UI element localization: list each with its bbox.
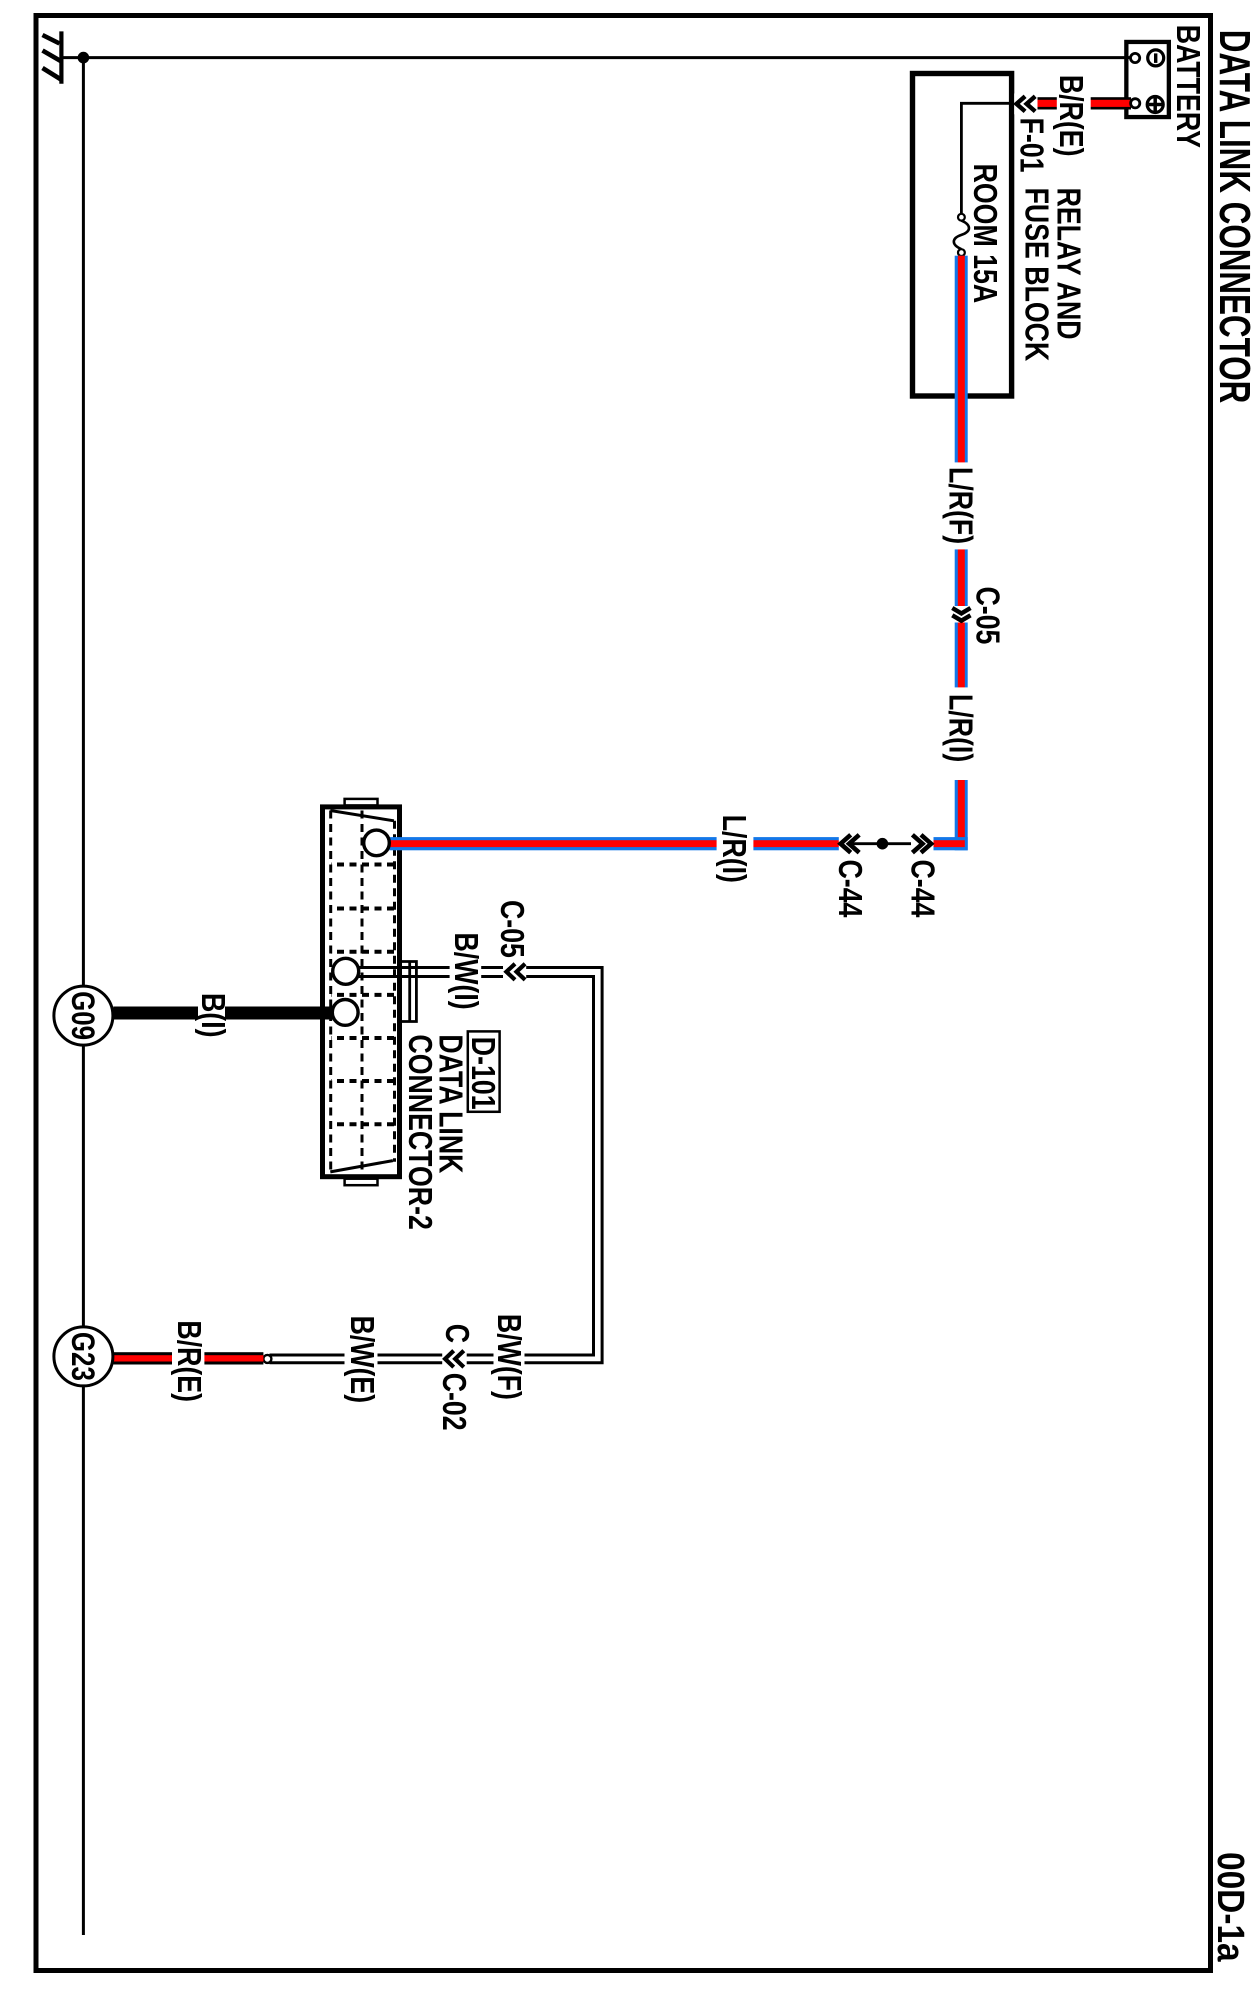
connector dashed cell dividers <box>331 865 394 1125</box>
connector right tab <box>345 1179 378 1186</box>
connector D-101 outer box <box>323 807 400 1177</box>
svg-text:F-01: F-01 <box>1013 118 1049 173</box>
connector chevron C-02 <box>442 1348 467 1369</box>
battery post small circles <box>1131 53 1140 62</box>
connector chevron into fuse block <box>1014 94 1037 115</box>
wire B/R(E) to G23 <box>113 1352 263 1364</box>
connector slanted end right <box>330 1161 393 1172</box>
svg-text:B/W(E): B/W(E) <box>343 1316 379 1404</box>
svg-text:C-02: C-02 <box>435 1373 471 1431</box>
battery terminal minus <box>1148 50 1164 66</box>
wire L/R vertical to connector <box>389 837 967 850</box>
fuse element ROOM 15A <box>954 221 969 250</box>
svg-text:C: C <box>438 1324 474 1343</box>
svg-text:CONNECTOR-2: CONNECTOR-2 <box>401 1034 437 1229</box>
mounting bracket above connector <box>400 962 417 1022</box>
connector dashed housing top edge <box>393 821 396 1162</box>
svg-text:G23: G23 <box>64 1332 99 1381</box>
ground point G09 <box>54 986 113 1045</box>
splice open dot <box>263 1355 271 1363</box>
label L/R(I) on horizontal run <box>942 687 978 780</box>
connector chevron C-44 upper <box>912 835 931 853</box>
svg-text:L/R(I): L/R(I) <box>715 815 751 883</box>
ground point G23 <box>54 1327 113 1386</box>
svg-text:L/R(I): L/R(I) <box>942 694 978 762</box>
wire B/R(E) battery to fuse block <box>1015 97 1132 109</box>
wire B(I) thick from pin3 to G09 <box>113 1007 332 1020</box>
svg-text:DATA LINK CONNECTOR: DATA LINK CONNECTOR <box>1209 30 1255 403</box>
wire L/R horizontal from fuse <box>955 256 968 851</box>
connector pin 3 <box>332 1000 358 1026</box>
connector chevron C-44 lower <box>841 835 860 853</box>
label B/W(I) <box>447 933 483 1010</box>
svg-text:B(I): B(I) <box>194 993 230 1038</box>
wire white gap between C-44 connectors <box>839 834 934 854</box>
wire battery ground thin vertical <box>83 56 1133 59</box>
connector dashed middle divider <box>361 811 364 1172</box>
fuse block box F-01 <box>913 74 1012 397</box>
label B/W(E) <box>343 1316 379 1404</box>
fuse internal wire <box>961 103 1012 214</box>
connector dashed housing bottom edge <box>329 811 332 1172</box>
svg-text:C-05: C-05 <box>494 900 530 958</box>
connector chevron C-05 <box>952 606 972 623</box>
wire long ground bus horizontal <box>82 57 85 1935</box>
svg-text:C-05: C-05 <box>969 587 1005 645</box>
junction dot ground <box>78 52 90 64</box>
svg-text:ROOM 15A: ROOM 15A <box>966 164 1002 304</box>
svg-text:B/R(E): B/R(E) <box>1052 75 1088 157</box>
label L/R(I) on vertical run <box>715 815 753 883</box>
svg-text:B/R(E): B/R(E) <box>170 1320 206 1402</box>
junction dot C-44 <box>877 838 889 850</box>
ground symbol <box>43 31 84 83</box>
wire thin junction between C-44 <box>851 842 911 845</box>
battery terminal plus <box>1147 97 1163 113</box>
connector pin 2 <box>333 958 359 984</box>
svg-text:L/R(F): L/R(F) <box>942 467 978 544</box>
svg-text:G09: G09 <box>64 991 99 1040</box>
svg-text:D-101: D-101 <box>464 1037 500 1110</box>
label B/W(F) <box>490 1314 526 1400</box>
svg-text:FUSE BLOCK: FUSE BLOCK <box>1018 188 1054 362</box>
label L/R(F) <box>942 462 978 549</box>
svg-text:B/W(F): B/W(F) <box>490 1314 526 1400</box>
wire B/W(I) double line from pin2 <box>270 968 603 1363</box>
connector left tab <box>345 799 378 806</box>
connector chevron C-05 on B/W <box>503 962 526 983</box>
connector slanted end left <box>330 811 394 821</box>
svg-text:C-44: C-44 <box>904 860 940 918</box>
connector pin 1 <box>364 830 390 856</box>
svg-text:00D-1a: 00D-1a <box>1210 1852 1252 1963</box>
svg-text:B/W(I): B/W(I) <box>447 933 483 1010</box>
battery box <box>1126 42 1169 117</box>
svg-text:C-44: C-44 <box>831 860 867 918</box>
svg-text:BATTERY: BATTERY <box>1169 25 1205 148</box>
label D-101 box <box>468 1031 500 1111</box>
